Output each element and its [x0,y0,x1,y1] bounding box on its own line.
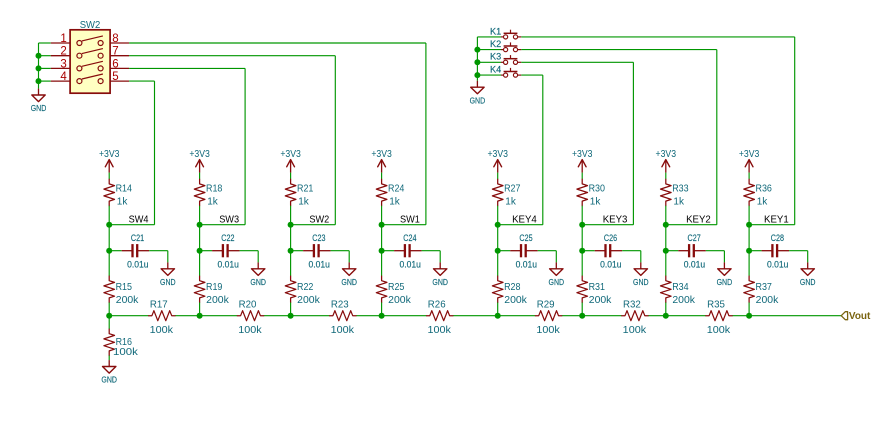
resistor R25 200k [376,276,411,306]
svg-text:R30: R30 [589,183,606,194]
svg-text:R20: R20 [239,300,257,311]
svg-text:R18: R18 [206,183,223,194]
wire [665,206,667,225]
svg-text:GND: GND [31,103,47,113]
svg-text:SW3: SW3 [219,213,239,225]
wire K3 left to bus [477,61,501,63]
svg-text:100k: 100k [238,325,262,336]
wire net KEY2 vertical [716,50,718,225]
resistor R27 1k [492,179,520,207]
node SW3 [197,222,203,228]
wire K2 left to bus [477,49,501,51]
svg-text:R24: R24 [388,183,405,194]
svg-text:SW2: SW2 [80,20,101,31]
capacitor C26 0.01u [595,233,623,270]
node KEY1 [746,222,752,228]
svg-text:R31: R31 [589,282,606,293]
wire pin3 to bus [39,67,51,69]
svg-text:GND: GND [432,277,448,287]
svg-text:+3V3: +3V3 [189,149,210,160]
resistor R22 200k [285,276,320,306]
resistor R31 200k [577,276,612,306]
ground GND (C24) [432,262,448,287]
wire K bus vertical [476,37,478,81]
wire [199,303,201,316]
wire [555,251,557,263]
wire [581,173,583,180]
junction [288,248,294,254]
wire [497,173,499,180]
svg-text:200k: 200k [756,295,780,306]
svg-text:GND: GND [470,95,486,105]
switch SW2 (4x DIP) [51,20,129,93]
wire net SW1 horizontal [382,224,426,226]
wire net SW4 vertical [154,81,156,225]
svg-text:GND: GND [633,277,649,287]
wire K2 horizontal [521,49,717,51]
wire SW2 pin8 horizontal [129,42,426,44]
svg-text:6: 6 [112,58,118,70]
wire [108,206,110,225]
wire [497,303,499,316]
svg-text:+3V3: +3V3 [99,149,120,160]
svg-text:GND: GND [549,277,565,287]
wire K1 left to bus [477,36,501,38]
wire [348,251,350,263]
wire [706,250,725,252]
junction SW2 bus pin3 [36,65,42,71]
svg-text:K1: K1 [490,25,501,36]
svg-text:Vout: Vout [849,311,871,322]
svg-text:200k: 200k [116,295,140,306]
svg-text:100k: 100k [113,347,139,358]
wire K4 left to bus [477,74,501,76]
wire [382,250,395,252]
svg-text:SW4: SW4 [129,213,149,225]
resistor R28 200k [492,276,527,306]
wire [748,206,750,225]
wire SW2 pin5 horizontal [129,80,154,82]
svg-text:1k: 1k [505,197,516,208]
svg-text:0.01u: 0.01u [600,260,621,270]
svg-text:R21: R21 [297,183,314,194]
svg-text:1k: 1k [117,197,128,208]
pushbutton K2 [490,38,521,52]
svg-text:SW2: SW2 [309,213,329,225]
wire [748,173,750,180]
svg-text:C25: C25 [519,233,532,243]
svg-text:100k: 100k [623,325,647,336]
wire [666,250,679,252]
junction [663,248,669,254]
svg-text:R35: R35 [707,300,725,311]
resistor R17 100k [149,300,175,336]
resistor R33 1k [661,179,689,207]
node SW4 [106,222,112,228]
ground GND (C22) [250,262,266,287]
svg-text:R22: R22 [297,282,314,293]
resistor R19 200k [194,276,229,306]
junction rail [579,313,585,319]
junction [495,248,501,254]
wire net KEY1 vertical [794,37,796,225]
svg-text:200k: 200k [589,295,613,306]
resistor R14 1k [104,179,132,207]
wire net SW2 horizontal [291,224,336,226]
ground GND (K bus) [470,81,486,106]
node SW2 [288,222,294,228]
wire [538,250,557,252]
svg-text:+3V3: +3V3 [280,149,301,160]
wire rail [562,315,622,317]
svg-text:R26: R26 [428,300,446,311]
wire net SW3 vertical [244,68,246,224]
svg-text:R25: R25 [388,282,405,293]
resistor R23 100k [330,300,356,336]
svg-text:0.01u: 0.01u [516,260,537,270]
junction rail [197,313,203,319]
svg-text:200k: 200k [297,295,321,306]
ground GND (SW2 bus) [31,89,47,114]
wire net SW2 vertical [334,56,336,225]
wire [748,225,750,251]
ground GND (C26) [633,262,649,287]
svg-text:3: 3 [60,58,66,70]
wire [108,173,110,180]
capacitor C21 0.01u [122,233,150,270]
resistor R20 100k [237,300,263,336]
junction rail [379,313,385,319]
svg-text:C24: C24 [403,233,416,243]
svg-text:KEY4: KEY4 [512,213,537,225]
power +3V3 (col SW3) [189,149,210,173]
power +3V3 (col KEY4) [487,149,508,173]
resistor R36 1k [744,179,772,207]
wire SW2 bus vertical [38,43,40,89]
resistor R26 100k [427,300,453,336]
wire [108,356,110,361]
junction SW2 bus pin4 [36,78,42,84]
svg-text:GND: GND [341,277,357,287]
junction rail [106,313,112,319]
resistor R32 100k [622,300,648,336]
wire [109,250,122,252]
svg-text:R32: R32 [623,300,641,311]
svg-text:C26: C26 [604,233,617,243]
svg-text:0.01u: 0.01u [767,260,788,270]
junction [197,248,203,254]
capacitor C22 0.01u [212,233,240,270]
power +3V3 (col SW4) [99,149,120,173]
svg-text:R28: R28 [504,282,521,293]
svg-text:R23: R23 [331,300,349,311]
capacitor C24 0.01u [394,233,422,270]
wire [240,250,259,252]
node KEY4 [495,222,501,228]
svg-text:100k: 100k [331,325,355,336]
wire [581,225,583,251]
svg-text:200k: 200k [388,295,412,306]
ground GND (R16) [101,360,117,385]
svg-text:R29: R29 [537,300,555,311]
wire [665,173,667,180]
wire [439,251,441,263]
junction [579,248,585,254]
svg-text:+3V3: +3V3 [656,149,677,160]
svg-text:+3V3: +3V3 [572,149,593,160]
junction K bus K3 [474,59,480,65]
svg-text:1k: 1k [757,197,768,208]
wire [381,303,383,316]
capacitor C27 0.01u [678,233,706,270]
wire [290,303,292,316]
svg-text:C21: C21 [131,233,144,243]
junction [379,248,385,254]
svg-text:GND: GND [160,277,176,287]
svg-text:C22: C22 [221,233,234,243]
power +3V3 (col SW1) [371,149,392,173]
wire [748,251,750,276]
svg-text:R19: R19 [206,282,223,293]
svg-text:0.01u: 0.01u [400,260,421,270]
wire [748,303,750,316]
svg-text:R36: R36 [756,183,773,194]
svg-text:R37: R37 [756,282,773,293]
wire [640,251,642,263]
resistor R30 1k [577,179,605,207]
power +3V3 (col SW2) [280,149,301,173]
svg-text:0.01u: 0.01u [127,260,148,270]
svg-text:1k: 1k [298,197,309,208]
wire [622,250,641,252]
junction K bus K2 [474,47,480,53]
wire [291,250,304,252]
wire net KEY3 vertical [632,62,634,224]
wire [665,225,667,251]
resistor R34 200k [661,276,696,306]
wire [108,303,110,316]
wire net KEY2 horizontal [666,224,717,226]
svg-text:R27: R27 [504,183,521,194]
svg-text:200k: 200k [504,295,528,306]
ground GND (C21) [160,262,176,287]
wire net KEY1 horizontal [749,224,795,226]
resistor R18 1k [194,179,222,207]
wire net KEY4 vertical [542,75,544,225]
wire net SW3 horizontal [200,224,246,226]
wire SW2 pin6 horizontal [129,67,245,69]
wire [108,316,110,329]
capacitor C28 0.01u [762,233,790,270]
wire pin4 to bus [39,80,51,82]
junction [106,248,112,254]
wire [290,173,292,180]
svg-text:+3V3: +3V3 [371,149,392,160]
svg-text:GND: GND [717,277,733,287]
wire [331,250,350,252]
resistor R16 100k [104,329,139,358]
wire [108,251,110,276]
wire rail [356,315,427,317]
svg-text:SW1: SW1 [400,213,420,225]
svg-text:GND: GND [800,277,816,287]
wire [581,206,583,225]
wire pin1 to bus [39,42,51,44]
wire [665,303,667,316]
wire [257,251,259,263]
hierarchical label Vout [841,311,871,322]
svg-text:1k: 1k [673,197,684,208]
wire [149,250,168,252]
wire [290,251,292,276]
wire rail [453,315,536,317]
svg-text:+3V3: +3V3 [739,149,760,160]
wire [200,250,213,252]
svg-text:GND: GND [250,277,266,287]
svg-text:R17: R17 [150,300,168,311]
resistor R35 100k [706,300,732,336]
svg-text:C23: C23 [312,233,325,243]
power +3V3 (col KEY2) [656,149,677,173]
svg-text:R33: R33 [672,183,689,194]
wire K4 horizontal [521,74,543,76]
svg-text:R14: R14 [116,183,133,194]
svg-text:0.01u: 0.01u [684,260,705,270]
svg-text:K4: K4 [490,64,501,75]
svg-text:+3V3: +3V3 [487,149,508,160]
svg-text:7: 7 [112,46,118,58]
wire net SW4 horizontal [109,224,154,226]
wire [381,173,383,180]
svg-text:5: 5 [112,71,118,83]
junction rail [663,313,669,319]
svg-text:100k: 100k [428,325,452,336]
wire [199,173,201,180]
wire [381,225,383,251]
wire [381,251,383,276]
wire K3 horizontal [521,61,633,63]
svg-text:200k: 200k [206,295,230,306]
ground GND (C23) [341,262,357,287]
junction K bus K4 [474,72,480,78]
svg-text:GND: GND [101,375,117,385]
svg-text:KEY1: KEY1 [764,213,789,225]
wire [749,250,762,252]
pushbutton K4 [490,64,521,78]
wire K1 horizontal [521,36,794,38]
svg-text:4: 4 [60,71,67,83]
wire [581,303,583,316]
resistor R37 200k [744,276,779,306]
svg-text:100k: 100k [536,325,560,336]
wire [497,206,499,225]
svg-text:100k: 100k [150,325,174,336]
ground GND (C25) [549,262,565,287]
svg-text:1k: 1k [207,197,218,208]
wire [497,225,499,251]
svg-text:1k: 1k [590,197,601,208]
wire rail [648,315,706,317]
wire [199,225,201,251]
power +3V3 (col KEY1) [739,149,760,173]
wire [807,251,809,263]
wire [199,206,201,225]
wire [290,206,292,225]
wire rail [732,315,749,317]
svg-text:1k: 1k [389,197,400,208]
resistor R21 1k [285,179,313,207]
pushbutton K3 [490,51,521,65]
wire net SW1 vertical [425,43,427,225]
capacitor C25 0.01u [510,233,538,270]
svg-text:0.01u: 0.01u [218,260,239,270]
resistor R24 1k [376,179,404,207]
wire [108,225,110,251]
wire [789,250,808,252]
svg-text:KEY3: KEY3 [603,213,628,225]
svg-text:1: 1 [60,33,66,45]
wire [582,250,595,252]
wire [422,250,441,252]
wire [498,250,511,252]
wire [199,251,201,276]
power +3V3 (col KEY3) [572,149,593,173]
wire rail [109,315,148,317]
junction rail [746,313,752,319]
resistor R29 100k [535,300,561,336]
wire [497,251,499,276]
svg-text:KEY2: KEY2 [686,213,711,225]
wire net KEY3 horizontal [582,224,633,226]
wire SW2 pin7 horizontal [129,55,335,57]
node SW1 [379,222,385,228]
wire to Vout [749,315,841,317]
wire [723,251,725,263]
junction [746,248,752,254]
svg-text:R15: R15 [116,282,133,293]
wire rail [264,315,330,317]
svg-text:100k: 100k [707,325,731,336]
svg-text:0.01u: 0.01u [309,260,330,270]
capacitor C23 0.01u [303,233,331,270]
node KEY3 [579,222,585,228]
wire [381,206,383,225]
resistor R15 200k [104,276,139,306]
svg-text:K3: K3 [490,51,501,62]
svg-text:C27: C27 [688,233,701,243]
wire rail [175,315,237,317]
svg-text:K2: K2 [490,38,501,49]
node KEY2 [663,222,669,228]
ground GND (C28) [800,262,816,287]
junction rail [288,313,294,319]
junction SW2 bus pin2 [36,53,42,59]
svg-text:200k: 200k [672,295,696,306]
svg-text:2: 2 [60,46,66,58]
wire [581,251,583,276]
svg-text:8: 8 [112,33,118,45]
wire [665,251,667,276]
ground GND (C27) [717,262,733,287]
junction rail [495,313,501,319]
wire net KEY4 horizontal [498,224,543,226]
pushbutton K1 [490,25,521,39]
svg-text:C28: C28 [771,233,784,243]
svg-text:R34: R34 [672,282,689,293]
wire [290,225,292,251]
wire pin2 to bus [39,55,51,57]
wire [167,251,169,263]
